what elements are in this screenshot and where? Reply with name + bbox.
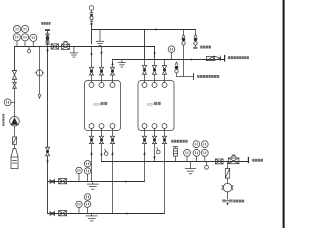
wire xyxy=(144,74,146,82)
EDI1 riser T2 wire xyxy=(101,47,103,68)
wire left column upper xyxy=(14,47,16,71)
instrument PI on C xyxy=(168,46,175,53)
EDI2 riser T3 wire xyxy=(164,60,166,66)
arrow up riser T3 xyxy=(111,62,113,65)
strainer rect left column xyxy=(12,137,16,144)
EDI1 port B3 xyxy=(110,124,115,129)
instrument PT on P xyxy=(193,141,200,148)
port EDI1 T1 xyxy=(89,83,94,88)
ground drain on A xyxy=(73,47,75,53)
label reuse interface xyxy=(197,75,219,78)
valve bowtie solid vent xyxy=(90,21,94,25)
port EDI2 T2 xyxy=(152,83,157,88)
wire pump outlet xyxy=(14,126,16,137)
port EDI1 T2 xyxy=(99,83,104,88)
cap C end xyxy=(224,55,226,62)
EDI2 module box xyxy=(138,81,174,131)
flowmeter rect xyxy=(225,168,229,178)
product drain branch wire xyxy=(227,162,229,169)
EDI2 port B3 xyxy=(162,124,167,129)
label feed inlet xyxy=(41,22,50,25)
instrument TI top-left xyxy=(22,25,29,32)
valve ball-bowtie T1 xyxy=(89,67,93,70)
check valve on C end xyxy=(214,56,220,61)
sample balloon EDI2 B2 xyxy=(157,148,158,151)
vent stack circle xyxy=(89,6,94,11)
EDI1 port B2 xyxy=(99,124,104,129)
wire xyxy=(91,75,93,83)
instrument FT on E xyxy=(84,194,90,200)
sample balloon on A xyxy=(28,47,30,50)
wire C to reuse line xyxy=(183,60,185,77)
valve gate on P xyxy=(215,159,223,164)
wire xyxy=(227,192,229,199)
valve ball-bowtie T2 xyxy=(99,67,103,70)
wire A drop to EDI2 T2 xyxy=(154,47,156,60)
arrow right on B xyxy=(155,29,158,31)
wire feed header A xyxy=(15,46,155,48)
bypass stack from C xyxy=(175,62,178,65)
label sample small xyxy=(193,47,197,49)
instrument TT on P xyxy=(201,141,208,148)
wire vent to B corner xyxy=(91,24,93,43)
label EDI1 xyxy=(94,101,101,106)
port EDI1 T3 xyxy=(110,83,115,88)
instrument FI2 on E xyxy=(84,201,90,207)
instrument PI on P xyxy=(184,149,191,156)
instrument FI on E xyxy=(76,201,82,207)
sample stack from B xyxy=(195,30,197,35)
cap P end xyxy=(247,157,249,163)
product sample stub on P xyxy=(175,156,177,161)
instrument FI top-left xyxy=(21,34,28,41)
svg-text:EDI: EDI xyxy=(147,101,154,106)
valve gate on C end xyxy=(207,56,214,60)
instrument rotameter drain branch xyxy=(35,70,44,76)
ground drain on P xyxy=(190,162,192,169)
arrow down riser B2 xyxy=(100,154,102,158)
drain valve assembly xyxy=(223,199,232,202)
port EDI2 T1 xyxy=(142,83,147,88)
drain stub on C xyxy=(121,60,123,63)
EDI2 riser T1 wire xyxy=(144,60,146,66)
valve control on A xyxy=(62,42,70,50)
wire instrument stems xyxy=(17,41,33,47)
ground drain on D xyxy=(92,182,94,185)
valve control on P xyxy=(228,155,239,164)
arrow down riser T2 xyxy=(100,52,102,55)
valve ball-bowtie bypass xyxy=(45,147,49,151)
valve gate on D xyxy=(59,179,67,184)
valve ball-bowtie EDI2 T1 xyxy=(142,66,146,70)
wire bypass to D and E xyxy=(47,156,49,214)
valve gate on A xyxy=(51,44,58,49)
ground drain from B xyxy=(99,30,101,42)
valve ball on D xyxy=(50,180,55,184)
EDI1 module box xyxy=(85,81,121,131)
wire product header B xyxy=(92,29,196,31)
valve bowtie V1 left column xyxy=(12,71,16,80)
wire xyxy=(164,74,166,82)
wire xyxy=(154,74,156,82)
instrument PI pump suction xyxy=(4,99,11,106)
label EDI2 xyxy=(147,101,154,106)
EDI1 riser B2 wire xyxy=(101,144,103,162)
EDI2 riser B1 wire xyxy=(144,144,146,182)
valve ball feed xyxy=(46,36,50,40)
arrow down A drop xyxy=(153,53,155,57)
wire xyxy=(227,178,229,183)
EDI1 riser B3 wire xyxy=(112,144,114,214)
flange feed inlet xyxy=(45,29,50,31)
label concentrate discharge xyxy=(228,56,249,59)
valve ring vent xyxy=(90,16,93,19)
wire concentrate header C xyxy=(113,59,225,61)
label product sample interface xyxy=(171,140,187,143)
label pump vertical xyxy=(2,114,4,126)
EDI2 port B2 xyxy=(152,124,157,129)
EDI2 riser T2 wire xyxy=(154,60,156,66)
arrow down feed bypass xyxy=(46,50,48,54)
valve ball-bowtie T3 xyxy=(110,67,114,70)
arrow up riser T1 xyxy=(90,52,92,55)
wire xyxy=(101,75,103,83)
instrument CI top-left xyxy=(30,34,37,41)
EDI1 riser T1 wire xyxy=(91,47,93,68)
wire xyxy=(14,144,16,148)
arrow drain open xyxy=(38,95,41,99)
device circle with tabs xyxy=(222,183,233,192)
svg-text:EDI: EDI xyxy=(94,101,101,106)
arrow right on E xyxy=(126,213,129,215)
arrow right on C xyxy=(191,59,194,61)
wire electrode line E xyxy=(48,213,165,215)
wire feed to header A xyxy=(47,31,49,47)
arrow up riser B1 xyxy=(90,151,92,155)
instrument FI on P xyxy=(193,149,200,156)
valve ball vent xyxy=(90,14,93,17)
EDI2 riser B2 wire xyxy=(154,144,156,162)
wire xyxy=(112,75,114,83)
label product drain xyxy=(233,200,244,203)
wire xyxy=(39,76,41,95)
instrument PI2 top-left xyxy=(13,34,20,41)
vent flange dash xyxy=(90,12,93,14)
wire feed bypass down xyxy=(47,47,49,148)
ground drain on E xyxy=(91,214,93,216)
instrument FI on D xyxy=(76,167,82,173)
product takeoff stack from B xyxy=(183,30,185,35)
valve ball-bowtie EDI2 T3 xyxy=(162,66,166,70)
instrument FT on D xyxy=(84,161,90,167)
pump EDI feed xyxy=(10,117,20,127)
label concentrate sample xyxy=(200,46,211,49)
EDI1 riser T3 wire xyxy=(112,60,114,68)
wire xyxy=(14,88,16,116)
border frame right xyxy=(283,0,285,228)
wire drain branch xyxy=(39,47,41,70)
EDI1 riser B1 wire xyxy=(91,144,93,182)
EDI2 port B1 xyxy=(142,124,147,129)
arrow up riser B3 xyxy=(111,151,113,155)
sample balloon below P xyxy=(206,162,208,166)
instrument TI on P xyxy=(201,149,208,156)
resin trap flask xyxy=(11,149,18,169)
wire concentrate feed line D xyxy=(48,181,145,183)
valve ball-bowtie EDI2 T2 xyxy=(152,66,156,70)
label product outlet xyxy=(252,159,263,162)
EDI2 riser B3 wire xyxy=(164,144,166,214)
valve gate on E xyxy=(59,211,67,216)
EDI1 port B1 xyxy=(89,124,94,129)
wire product line P xyxy=(102,161,249,163)
flange dash feed xyxy=(46,43,50,45)
cap reuse interface xyxy=(193,74,195,80)
instrument FI2 on D xyxy=(84,168,90,174)
arrow right on D xyxy=(125,181,128,183)
valve ball on E xyxy=(50,212,55,216)
valve bowtie V2 left column xyxy=(13,82,17,88)
valve ring feed upper xyxy=(46,33,49,36)
valve ring feed lower xyxy=(46,40,49,43)
wire xyxy=(14,79,16,82)
wire B drop to EDI2 T1 xyxy=(144,30,146,60)
instrument PI top-left xyxy=(14,26,21,33)
sample balloon EDI1 B2 xyxy=(105,149,106,152)
port EDI2 T3 xyxy=(162,83,167,88)
arrow down bypass xyxy=(46,161,48,165)
arrow down EDI2 riser B2 xyxy=(153,157,155,161)
arrow up EDI2 riser B1 xyxy=(143,151,145,155)
